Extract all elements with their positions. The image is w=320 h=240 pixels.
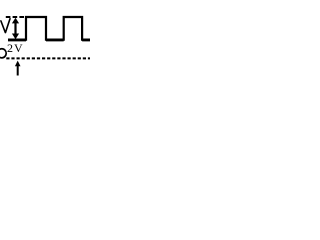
label 0 (axis origin, clipped at left image edge), drawn as ellipse xyxy=(0,49,6,58)
background xyxy=(0,0,90,90)
offset pointer arrow shaft xyxy=(17,66,19,76)
dashed high-level reference line xyxy=(6,16,24,18)
waveform figure: square wave with amplitude and offset annotations xyxy=(0,0,90,90)
amplitude double arrow shaft xyxy=(14,22,16,36)
square wave xyxy=(8,17,90,40)
offset pointer arrow head xyxy=(15,61,21,67)
amplitude arrow top head xyxy=(12,18,19,24)
dashed zero baseline xyxy=(6,57,90,59)
square wave low-level segments (slightly thicker) xyxy=(8,39,90,42)
amplitude arrow bottom head xyxy=(12,34,19,40)
label V (amplitude), drawn as two strokes xyxy=(1,19,10,33)
svg-text:2V: 2V xyxy=(7,41,24,55)
